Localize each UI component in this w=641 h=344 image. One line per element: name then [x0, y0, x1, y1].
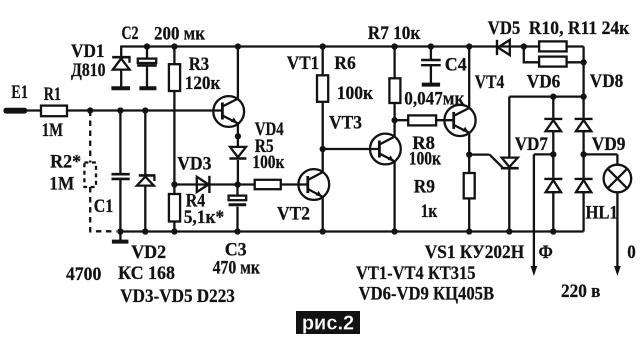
svg-text:VD1: VD1 [71, 41, 105, 62]
node top rail C2 [144, 43, 150, 49]
node VT4 emitter gate [466, 151, 472, 157]
node middle wire R3R4 [171, 181, 177, 187]
transistor VT2 [298, 169, 329, 200]
ground (C4) [422, 83, 440, 87]
node bottom rail VS1 [506, 228, 512, 234]
svg-text:КС 168: КС 168 [118, 263, 175, 284]
wire VT1 collector column [237, 47, 239, 99]
wire R11 left [524, 47, 539, 63]
ground (C1 bottom rail) [112, 240, 128, 244]
wire C1 bottom [119, 180, 121, 232]
transistor VT3 [370, 134, 401, 165]
resistor R2 dashed wire top [89, 111, 91, 163]
wire bridge right mid to lamp [584, 153, 618, 155]
wire thyristor anode to bridge top [509, 95, 583, 97]
svg-text:VT1-VT4 КТ315: VT1-VT4 КТ315 [356, 263, 476, 284]
transistor VT1 [213, 96, 244, 127]
node bottom rail VT3 [391, 228, 397, 234]
wire lamp top connector [616, 154, 618, 164]
svg-text:200 мк: 200 мк [154, 23, 205, 44]
wire VT2 collector to VT3 base [323, 148, 380, 150]
node bridge mid left [550, 151, 556, 157]
svg-text:120к: 120к [185, 73, 221, 94]
svg-text:5,1к*: 5,1к* [184, 207, 225, 228]
node bottom rail C1 [117, 228, 123, 234]
arrow neutral terminal [614, 266, 621, 276]
svg-text:VD6: VD6 [527, 72, 561, 93]
wire gate horizontal [469, 153, 489, 155]
wire R10-R11 right column [582, 47, 584, 98]
svg-text:1к: 1к [421, 201, 438, 222]
resistor R11 [539, 57, 567, 67]
node R7-R8-VT3 [391, 117, 397, 123]
svg-text:VD6-VD9 КЦ405В: VD6-VD9 КЦ405В [359, 283, 495, 304]
resistor R5 [255, 180, 281, 189]
wire bridge right bottom [582, 192, 584, 231]
arrow phase terminal [531, 266, 538, 276]
node top rail R7 [391, 43, 397, 49]
node top rail VT4 [466, 43, 472, 49]
svg-text:220 в: 220 в [561, 281, 601, 302]
svg-text:VT4: VT4 [475, 72, 505, 93]
resistor R8 [408, 115, 436, 125]
wire VT3 emitter [393, 162, 395, 232]
wire thyristor column top [508, 97, 510, 158]
wire phase line down [533, 154, 535, 267]
wire C1 column [119, 111, 121, 174]
resistor R6 [317, 75, 328, 102]
node VT2 collector [320, 146, 326, 152]
resistor R7 [389, 78, 400, 103]
svg-text:VD3-VD5 D223: VD3-VD5 D223 [120, 286, 235, 307]
wire VD1 stub from rail [120, 46, 122, 57]
wire thyristor cathode bottom [508, 169, 510, 231]
svg-text:VD7: VD7 [515, 134, 549, 155]
svg-text:E1: E1 [11, 82, 28, 103]
wire VD2 bottom column [144, 187, 146, 232]
svg-text:C2: C2 [122, 23, 139, 44]
wire bridge left column [552, 97, 554, 118]
wire main upper rail [27, 109, 222, 111]
resistor R1 [41, 106, 67, 117]
svg-text:R1: R1 [44, 84, 61, 105]
wire VT1 emitter to VD4 [237, 123, 239, 147]
zener diode VD2 [137, 175, 156, 185]
node R11 right [580, 59, 586, 65]
resistor R3 [169, 64, 180, 91]
node VT1 emitter [235, 133, 241, 139]
wire bridge right column [582, 97, 584, 118]
node middle wire VD4-C3 [235, 181, 241, 187]
node top rail VT1 [235, 43, 241, 49]
wire VT2 emitter [322, 197, 324, 232]
resistor R9 [464, 173, 475, 198]
svg-text:4700: 4700 [66, 264, 101, 285]
svg-text:R7 10к: R7 10к [368, 23, 421, 44]
wire C4 stub [430, 47, 432, 60]
diode VD3 [197, 176, 210, 193]
node main wire R2 [87, 107, 93, 113]
wire C2 stub from rail [146, 47, 148, 59]
svg-text:470 мк: 470 мк [213, 258, 260, 279]
capacitor C4 [421, 60, 441, 65]
terminal E1 [4, 108, 28, 114]
svg-text:VD8: VD8 [590, 71, 624, 92]
wire R11 right [567, 61, 584, 63]
capacitor C3 [229, 196, 247, 205]
diode VD7 [544, 179, 562, 192]
diode VD6 [544, 119, 562, 131]
svg-text:VD9: VD9 [592, 134, 626, 155]
svg-text:Ф: Ф [539, 242, 553, 263]
wire C4 bottom stub to ground [430, 66, 432, 83]
wire R3 bottom through main to R4 [173, 91, 175, 194]
svg-text:VD5: VD5 [488, 18, 521, 39]
resistor R2 dashed body [84, 163, 96, 188]
wire VT4 collector column [468, 47, 470, 109]
diode VD8 [575, 119, 593, 131]
node bottom rail VD2 [142, 228, 148, 234]
node top rail R6 [320, 43, 326, 49]
node bridge top right [580, 93, 586, 99]
node bottom rail R9 [466, 228, 472, 234]
resistor R2 dashed wire bottom [90, 187, 116, 231]
node bottom rail R4 [171, 228, 177, 234]
node top rail R3 [171, 43, 177, 49]
wire R7 to R8 to VT4 base [395, 119, 454, 121]
transistor VT4 [444, 105, 475, 136]
svg-text:0,047мк: 0,047мк [404, 88, 464, 109]
ground stub below bottom rail [119, 232, 121, 241]
node bridge top left [550, 93, 556, 99]
node main wire C1 [117, 107, 123, 113]
wire middle (VD3-R5-VT2 base) [174, 183, 307, 185]
ground (VD1) [111, 86, 130, 90]
svg-text:VD2: VD2 [131, 242, 166, 263]
wire bottom rail [120, 230, 583, 232]
capacitor C1 [112, 174, 130, 179]
wire VT4 emitter to gate node to R9 [468, 133, 470, 174]
svg-text:VT3: VT3 [329, 112, 362, 133]
svg-text:VD3: VD3 [177, 153, 211, 174]
node bottom rail C3 [234, 228, 240, 234]
svg-text:R2*: R2* [50, 151, 81, 172]
wire R9 bottom [468, 198, 470, 231]
svg-text:HL1: HL1 [586, 203, 618, 224]
wire R4 bottom [173, 222, 175, 232]
svg-text:R9: R9 [414, 176, 435, 197]
diode VD5 [497, 40, 510, 55]
wire bridge left mid to phase [534, 153, 553, 155]
node VD5-R10R11 [521, 43, 527, 49]
svg-text:100к: 100к [252, 152, 284, 173]
thyristor VS1 [490, 155, 519, 169]
node top rail C4 [428, 43, 434, 49]
capacitor C2 [137, 59, 157, 87]
svg-text:100к: 100к [337, 83, 373, 104]
diode VD4 [229, 147, 246, 159]
resistor R4 [169, 194, 180, 222]
svg-text:R3: R3 [189, 54, 210, 75]
svg-text:C4: C4 [445, 55, 467, 76]
wire VD2 top column [144, 111, 146, 175]
svg-text:100к: 100к [409, 148, 441, 169]
svg-text:1M: 1M [49, 174, 74, 195]
wire R6 column / VT2 collector column [322, 47, 324, 173]
svg-text:R6: R6 [334, 53, 356, 74]
svg-text:C1: C1 [94, 196, 114, 217]
wire top rail [121, 45, 539, 47]
wire VD4 cathode to middle junction [237, 160, 239, 185]
zener diode VD1 [112, 57, 130, 87]
wire bridge right between rows [582, 131, 584, 178]
wire R10 right [567, 45, 584, 47]
svg-text:рис.2: рис.2 [302, 313, 354, 335]
wire C3 column top [236, 185, 238, 196]
wire R7 column / VT3 collector [393, 47, 395, 138]
svg-text:VS1 КУ202Н: VS1 КУ202Н [425, 242, 525, 263]
node bottom rail bridge left [550, 228, 556, 234]
node bottom rail VT2 [320, 228, 326, 234]
wire lamp line down [616, 192, 618, 267]
diode VD9 [575, 179, 593, 192]
svg-text:Д810: Д810 [71, 60, 106, 81]
ground (C2) [139, 86, 156, 90]
wire R3 top stub [173, 47, 175, 65]
wire bridge left bottom [552, 192, 554, 231]
svg-text:0: 0 [627, 242, 636, 263]
wire C3 column bottom [236, 207, 238, 232]
svg-text:1M: 1M [42, 120, 63, 141]
node bridge mid right [580, 151, 586, 157]
wire bridge left between rows [552, 131, 554, 178]
svg-text:R10, R11 24к: R10, R11 24к [529, 18, 630, 39]
resistor R10 [539, 41, 567, 51]
lamp HL1 [604, 165, 632, 193]
figure caption box рис.2 [296, 311, 360, 335]
node main wire VD2 [142, 107, 148, 113]
svg-text:VT1: VT1 [287, 53, 320, 74]
svg-text:VT2: VT2 [277, 204, 310, 225]
